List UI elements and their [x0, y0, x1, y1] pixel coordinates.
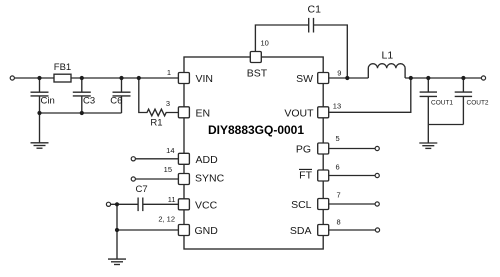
pin box SW 9	[318, 73, 329, 84]
svg-text:ADD: ADD	[196, 154, 219, 166]
pin box ADD 14	[178, 153, 189, 164]
svg-text:R1: R1	[150, 118, 162, 129]
svg-text:C6: C6	[110, 96, 122, 107]
junction node Cin top	[37, 76, 41, 80]
pin box VIN 1	[178, 73, 189, 84]
svg-text:SYNC: SYNC	[195, 173, 225, 185]
svg-text:11: 11	[168, 195, 176, 204]
terminal PG	[375, 146, 379, 150]
wire output rail	[405, 77, 481, 79]
svg-text:COUT2: COUT2	[467, 100, 489, 107]
svg-text:15: 15	[164, 165, 172, 174]
terminal ADD	[131, 157, 135, 161]
wire bottom rail input caps	[40, 112, 122, 114]
wire input rail VIN	[14, 77, 178, 79]
junction node GND rail	[115, 228, 119, 232]
wire VOUT to L1 node	[329, 78, 411, 112]
svg-text:C7: C7	[136, 184, 148, 195]
wire ground riser below COUT1	[427, 125, 429, 143]
wire GND	[117, 229, 178, 231]
pin box SYNC 15	[178, 174, 189, 185]
svg-text:1: 1	[167, 68, 171, 77]
svg-text:C1: C1	[308, 4, 322, 16]
svg-text:6: 6	[336, 163, 340, 172]
terminal SDA	[375, 228, 379, 232]
wire ADD	[135, 158, 178, 160]
capacitor C7	[138, 198, 178, 212]
ground symbol input	[31, 143, 49, 148]
pin label FT with overline	[299, 169, 313, 181]
svg-text:DIY8883GQ-0001: DIY8883GQ-0001	[208, 123, 304, 137]
wire C1 to SW node	[314, 25, 348, 78]
junction node SW C1	[345, 76, 349, 80]
wire FT	[329, 175, 375, 177]
pin box EN 3	[178, 107, 189, 118]
capacitor C1	[309, 18, 314, 33]
pin box PG 5	[318, 143, 329, 154]
svg-text:BST: BST	[247, 68, 268, 80]
svg-text:PG: PG	[296, 144, 311, 156]
svg-text:L1: L1	[382, 49, 394, 61]
junction node C6 top	[119, 76, 123, 80]
svg-text:9: 9	[337, 68, 341, 77]
wire ground riser below Cin	[39, 113, 41, 143]
terminal VCC	[106, 202, 110, 206]
pin box VOUT 13	[318, 107, 329, 118]
junction node Cin bottom	[37, 111, 41, 115]
capacitor C6	[113, 78, 131, 113]
inductor L1	[368, 64, 405, 78]
wire PG	[329, 148, 375, 150]
svg-text:C3: C3	[83, 96, 95, 107]
wire BST to C1	[255, 25, 308, 52]
svg-text:VOUT: VOUT	[284, 107, 314, 119]
svg-text:VIN: VIN	[196, 73, 214, 85]
svg-text:COUT1: COUT1	[431, 100, 453, 107]
pin box VCC 11	[178, 199, 189, 210]
svg-text:FB1: FB1	[54, 62, 71, 73]
svg-text:10: 10	[261, 39, 269, 48]
svg-text:EN: EN	[196, 107, 211, 119]
IC U1 body	[184, 57, 323, 249]
terminal SYNC	[131, 177, 135, 181]
svg-text:SCL: SCL	[291, 199, 312, 211]
capacitor COUT2	[455, 78, 472, 125]
junction node C3 top	[80, 76, 84, 80]
wire ground riser below GND	[116, 230, 118, 259]
svg-text:FT: FT	[299, 170, 312, 182]
terminal SCL	[375, 202, 379, 206]
svg-text:14: 14	[166, 146, 174, 155]
svg-text:VCC: VCC	[195, 199, 218, 211]
resistor R1	[139, 78, 179, 116]
svg-text:Cin: Cin	[41, 96, 55, 107]
ferrite bead FB1	[54, 74, 71, 82]
wire VCC input	[111, 203, 139, 205]
svg-text:SDA: SDA	[290, 225, 312, 237]
pin box GND 2 12	[178, 225, 189, 236]
wire SYNC	[135, 178, 178, 180]
svg-text:13: 13	[333, 102, 341, 111]
wire SCL	[329, 203, 375, 205]
terminal VOUT output	[481, 76, 485, 80]
svg-text:2, 12: 2, 12	[158, 215, 175, 224]
junction node L1 out	[409, 76, 413, 80]
svg-text:3: 3	[166, 99, 170, 108]
pin box SDA 8	[318, 225, 329, 236]
wire SDA	[329, 229, 376, 231]
junction node R1 branch	[137, 76, 141, 80]
pin box BST 10	[250, 52, 261, 63]
terminal input	[10, 76, 14, 80]
ground symbol GND	[108, 259, 126, 264]
wire bottom rail output caps	[428, 124, 463, 126]
terminal FT	[375, 173, 379, 177]
pin box SCL 7	[318, 199, 329, 210]
wire VCC to GND riser	[116, 204, 118, 230]
capacitor Cin	[31, 78, 49, 113]
svg-text:GND: GND	[195, 225, 219, 237]
capacitor COUT1	[420, 78, 437, 125]
capacitor C3	[73, 78, 91, 113]
svg-text:7: 7	[337, 191, 341, 200]
svg-text:8: 8	[337, 218, 341, 227]
junction node VCC C7	[115, 202, 119, 206]
junction node COUT1 top	[426, 76, 430, 80]
ground symbol output	[419, 143, 437, 148]
svg-text:5: 5	[336, 134, 340, 143]
wire SW	[329, 77, 369, 79]
junction node C3 bottom	[80, 111, 84, 115]
pin box FT 6	[318, 170, 329, 181]
svg-text:SW: SW	[296, 73, 313, 85]
junction node COUT2 top	[461, 76, 465, 80]
